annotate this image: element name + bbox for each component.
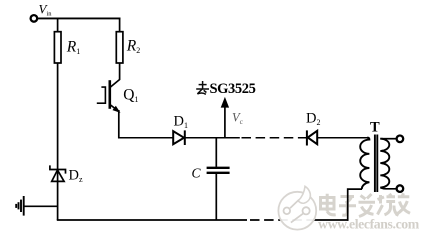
diode D1 — [173, 130, 185, 145]
wire secondary bottom lead — [380, 188, 396, 189]
label 去SG3525 — [196, 81, 209, 94]
wire R2 stem — [119, 18, 121, 32]
svg-text:Vin: Vin — [39, 2, 53, 18]
svg-text:R2: R2 — [126, 38, 140, 56]
svg-text:D1: D1 — [174, 114, 188, 131]
svg-text:SG3525: SG3525 — [210, 81, 256, 97]
wire R1 stem — [57, 18, 59, 31]
transistor Q1 — [97, 63, 120, 112]
svg-text:Dz: Dz — [69, 168, 83, 185]
capacitor C — [207, 138, 230, 220]
svg-text:D2: D2 — [306, 111, 320, 128]
svg-text:R1: R1 — [66, 39, 80, 57]
wire emitter down — [118, 110, 120, 139]
svg-text:www.elecfans.com: www.elecfans.com — [318, 217, 420, 232]
svg-text:C: C — [192, 166, 202, 181]
ground — [16, 196, 24, 216]
diode D2 — [307, 130, 317, 145]
wire mid rail left — [118, 137, 175, 139]
transformer core — [375, 135, 377, 193]
resistor R1 — [54, 32, 61, 63]
wire secondary top lead — [380, 138, 396, 140]
svg-text:Vc: Vc — [232, 111, 244, 126]
arrow to SG3525 — [221, 97, 229, 138]
wire primary bottom lead — [348, 189, 362, 221]
svg-text:T: T — [370, 120, 380, 136]
wire bottom rail solid left — [57, 219, 247, 221]
wire mid rail dashed — [242, 137, 307, 139]
wire bottom rail solid right — [310, 219, 349, 221]
watermark logo circle — [278, 186, 316, 229]
terminal secondary bottom — [397, 185, 404, 192]
wire mid rail node segment — [186, 137, 240, 139]
wire bottom rail dashed — [250, 219, 310, 221]
wire ground lead — [25, 205, 59, 207]
input terminal — [31, 15, 38, 22]
svg-text:Q1: Q1 — [123, 87, 138, 105]
wire D2 to transformer — [317, 137, 367, 139]
terminal secondary top — [397, 136, 404, 143]
transformer secondary winding — [380, 139, 389, 188]
wire R1 column — [57, 63, 59, 220]
resistor R2 — [116, 32, 123, 63]
wire top rail — [38, 17, 121, 19]
transformer primary winding — [360, 138, 369, 189]
zener diode Dz — [50, 165, 66, 181]
